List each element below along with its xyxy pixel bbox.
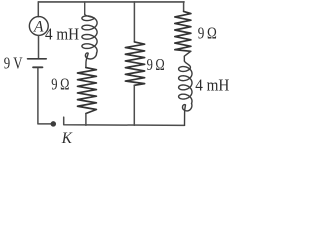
svg-text:K: K bbox=[61, 129, 74, 146]
resistor R3 9 ohm (zigzag) bbox=[175, 11, 191, 51]
inductor L1 4 mH (coil) bbox=[82, 14, 97, 53]
svg-text:9 V: 9 V bbox=[4, 55, 23, 73]
svg-text:9 Ω: 9 Ω bbox=[147, 57, 165, 75]
circuit schematic: 9 V battery, ammeter A, switch K, three parallel branches (L+R, R, R+L) bbox=[0, 0, 266, 147]
resistor R1 9 ohm (zigzag) bbox=[78, 68, 97, 114]
wire ammeter to battery bbox=[38, 36, 40, 59]
svg-text:4 mH: 4 mH bbox=[195, 77, 229, 95]
inductor L2 4 mH (coil) bbox=[179, 61, 192, 103]
battery 9 V negative plate bbox=[33, 66, 42, 68]
wire top bus to resistor R2 bbox=[133, 2, 135, 42]
wire resistor R3 to inductor L2 bbox=[184, 51, 190, 61]
svg-text:A: A bbox=[33, 18, 44, 35]
ammeter A bbox=[29, 17, 48, 36]
svg-text:4 mH: 4 mH bbox=[45, 26, 79, 44]
wire top bus to resistor R3 bbox=[183, 2, 185, 12]
svg-text:9 Ω: 9 Ω bbox=[198, 25, 217, 43]
wire top horizontal bus bbox=[38, 1, 184, 3]
switch K open contact and bottom bus wire bbox=[64, 117, 185, 125]
wire top bus to ammeter bbox=[37, 2, 39, 17]
wire inductor L1 to resistor R1 bbox=[85, 53, 96, 68]
wire top bus to inductor L1 bbox=[84, 2, 86, 14]
wire battery negative to bottom-left corner bbox=[38, 68, 51, 124]
battery 9 V positive plate bbox=[28, 58, 47, 60]
svg-text:9 Ω: 9 Ω bbox=[51, 76, 69, 94]
resistor R2 9 ohm (zigzag) bbox=[125, 42, 144, 85]
wire resistor R2 to bottom bus bbox=[133, 85, 135, 125]
node K terminal dot bbox=[51, 121, 57, 127]
wire resistor R1 to bottom bus bbox=[85, 114, 87, 126]
wire inductor L2 to bottom bus bbox=[182, 103, 191, 125]
